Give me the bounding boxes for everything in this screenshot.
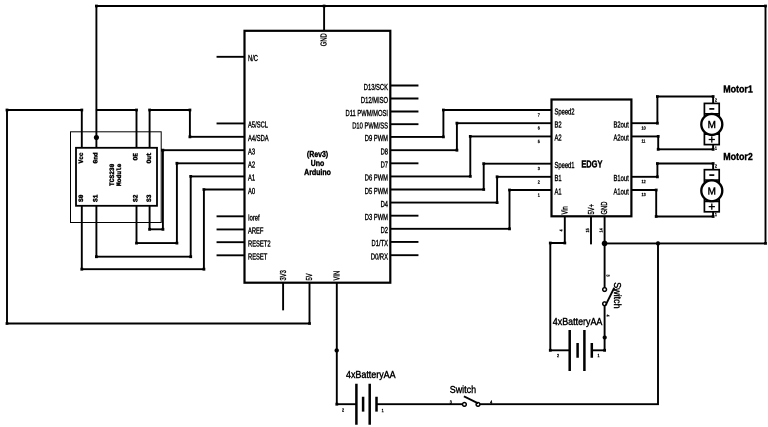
wire D0/RX stub xyxy=(390,254,417,256)
svg-text:D7: D7 xyxy=(381,161,388,170)
svg-text:5V+: 5V+ xyxy=(587,204,596,214)
svg-text:AREF: AREF xyxy=(248,227,264,236)
svg-text:D8: D8 xyxy=(381,148,388,157)
svg-text:13: 13 xyxy=(642,192,647,198)
svg-text:A1: A1 xyxy=(555,187,562,196)
svg-text:A2: A2 xyxy=(248,161,255,170)
wire S3 to A3 xyxy=(150,150,245,229)
wire switch1 to ground junction xyxy=(480,243,658,404)
wire D2 to A1 xyxy=(390,190,551,229)
Motor1 M1 minus mark xyxy=(709,108,714,110)
wire D9 to Speed2 xyxy=(390,110,551,137)
svg-text:VIN: VIN xyxy=(333,271,342,281)
svg-text:D2: D2 xyxy=(381,226,388,235)
svg-text:B1: B1 xyxy=(555,174,562,183)
wire D12/MISO stub xyxy=(390,98,417,100)
Motor2 M2 terminal dividers xyxy=(704,180,719,202)
switch S1 lever xyxy=(464,396,478,403)
svg-text:Motor2: Motor2 xyxy=(723,151,753,163)
wire EDGY Vin to battery2 xyxy=(550,216,568,350)
switch S1 contact circles xyxy=(463,403,467,407)
svg-text:D10 PWM/SS: D10 PWM/SS xyxy=(352,122,388,131)
svg-text:A1out: A1out xyxy=(614,187,629,196)
wire RESET2 stub xyxy=(218,241,245,243)
battery BT2 4xBatteryAA plates xyxy=(570,330,585,371)
wire A2out to Motor1 pin1 xyxy=(631,136,713,149)
svg-text:D1/TX: D1/TX xyxy=(372,239,389,248)
wire A1out to Motor2 pin1 xyxy=(631,190,713,217)
Motor2 M2 body xyxy=(704,170,719,212)
wire Out to A4/SDA xyxy=(150,110,245,148)
svg-text:A2out: A2out xyxy=(614,134,629,143)
svg-text:Vcc: Vcc xyxy=(78,152,85,163)
svg-text:N/C: N/C xyxy=(248,54,258,63)
TCS230 module U1 outer boundary xyxy=(71,132,162,223)
svg-text:D13/SCK: D13/SCK xyxy=(364,83,388,92)
svg-text:4xBatteryAA: 4xBatteryAA xyxy=(346,370,396,380)
svg-text:12: 12 xyxy=(642,178,647,184)
svg-text:S0: S0 xyxy=(78,194,85,202)
wire D13/SCK stub xyxy=(390,85,417,87)
wire D4 to B1 xyxy=(390,177,551,203)
wire GND top bus xyxy=(96,6,765,243)
svg-text:S3: S3 xyxy=(146,194,153,202)
svg-text:Out: Out xyxy=(146,152,153,163)
svg-text:D12/MISO: D12/MISO xyxy=(361,96,388,105)
svg-text:Speed2: Speed2 xyxy=(555,107,575,116)
wire D11 stub xyxy=(390,111,417,113)
wire RESET stub xyxy=(218,254,245,256)
svg-text:A1: A1 xyxy=(248,174,255,183)
EDGY motor driver U3 body xyxy=(552,100,632,217)
svg-text:Gnd: Gnd xyxy=(93,152,100,163)
svg-text:S2: S2 xyxy=(133,194,140,202)
junction dot bottom ground riser xyxy=(656,241,660,245)
wire gnd bus to TCS230 Gnd pin xyxy=(95,6,97,148)
svg-text:D9 PWM: D9 PWM xyxy=(365,134,388,143)
junction dot TCS230 Gnd xyxy=(94,135,99,140)
svg-text:B2out: B2out xyxy=(614,121,629,130)
svg-text:Switch: Switch xyxy=(612,282,622,308)
wire D8 to B2 xyxy=(390,123,551,150)
wire EDGY GND pin xyxy=(604,216,606,243)
wire battery1 to switch1 xyxy=(378,403,463,405)
wire TCS230 Vcc pin xyxy=(81,110,83,148)
Motor1 M1 plus mark xyxy=(709,136,715,142)
svg-text:Switch: Switch xyxy=(450,385,476,395)
svg-text:11: 11 xyxy=(642,138,646,144)
wire N/C stub xyxy=(218,56,245,58)
Motor1 M1 terminal dividers xyxy=(704,114,719,135)
battery BT1 4xBatteryAA plates xyxy=(356,384,369,425)
svg-text:3V3: 3V3 xyxy=(279,270,288,280)
svg-text:D3 PWM: D3 PWM xyxy=(365,213,388,222)
svg-text:Arduino: Arduino xyxy=(304,168,331,178)
svg-text:M: M xyxy=(708,120,716,131)
wire 5V rail left xyxy=(7,110,310,324)
svg-text:15: 15 xyxy=(584,228,590,233)
wire D6 to A2 xyxy=(390,136,551,176)
svg-text:M: M xyxy=(708,186,716,197)
svg-text:EDGY: EDGY xyxy=(581,159,602,170)
wire Ioref stub xyxy=(218,215,245,217)
svg-text:Speed1: Speed1 xyxy=(555,161,575,170)
svg-text:A5/SCL: A5/SCL xyxy=(248,121,268,130)
wire D1/TX stub xyxy=(390,241,417,243)
svg-text:B1out: B1out xyxy=(614,174,629,183)
svg-text:A3: A3 xyxy=(248,148,255,157)
svg-text:10: 10 xyxy=(642,125,647,131)
junction dot switch2 to battery2 xyxy=(603,335,607,339)
wire battery2 to switch2 xyxy=(593,306,604,350)
junction dot VIN wire xyxy=(335,348,339,352)
wire S0 to A0 xyxy=(82,190,245,270)
wire VIN to battery1 xyxy=(337,283,355,405)
wire D7 stub xyxy=(390,162,417,164)
wire S1 to A1 xyxy=(96,176,244,256)
svg-text:14: 14 xyxy=(598,228,604,233)
svg-text:S1: S1 xyxy=(93,194,100,202)
wire D3 stub xyxy=(390,215,417,217)
Motor1 M1 body xyxy=(704,103,719,144)
svg-text:A4/SDA: A4/SDA xyxy=(248,134,269,143)
svg-text:5V: 5V xyxy=(305,273,314,280)
svg-text:D5 PWM: D5 PWM xyxy=(365,187,388,196)
Motor2 M2 rotor circle xyxy=(701,180,722,201)
svg-text:D0/RX: D0/RX xyxy=(371,253,388,262)
wire gnd junction to right bus xyxy=(605,242,766,244)
wire AREF stub xyxy=(218,228,245,230)
svg-text:D6 PWM: D6 PWM xyxy=(365,174,388,183)
switch S2 contact circles xyxy=(603,288,607,292)
svg-text:Vin: Vin xyxy=(561,206,570,214)
svg-text:RESET2: RESET2 xyxy=(248,240,271,249)
svg-text:A2: A2 xyxy=(555,134,562,143)
svg-text:A0: A0 xyxy=(248,187,255,196)
svg-text:B2: B2 xyxy=(555,121,562,130)
svg-text:OE: OE xyxy=(133,153,140,161)
svg-text:Ioref: Ioref xyxy=(248,214,260,223)
wire Arduino GND pin to bus xyxy=(323,6,325,31)
svg-text:RESET: RESET xyxy=(248,253,268,262)
svg-text:GND: GND xyxy=(320,33,329,46)
wire OE to Gnd tie xyxy=(96,110,136,148)
wire D5 to Speed1 xyxy=(390,164,551,190)
switch S2 lever xyxy=(606,288,615,305)
Motor2 M2 plus mark xyxy=(709,204,715,210)
TCS230 module U1 body xyxy=(76,148,157,206)
Motor1 M1 rotor circle xyxy=(701,114,722,135)
wire switch2 to gnd junction xyxy=(604,243,606,287)
op-amp, er, Arduino U2 body xyxy=(245,31,391,283)
wire A5/SCL stub xyxy=(218,122,245,124)
svg-text:D11 PWM/MOSI: D11 PWM/MOSI xyxy=(346,109,388,118)
svg-text:GND: GND xyxy=(600,202,609,215)
svg-text:4xBatteryAA: 4xBatteryAA xyxy=(553,316,603,326)
wire D10 stub xyxy=(390,123,417,125)
svg-text:D4: D4 xyxy=(381,200,388,209)
wire B2out to Motor1 pin2 xyxy=(631,97,713,124)
junction dot EDGY GND node xyxy=(602,241,608,247)
wire S2 to A2 xyxy=(137,163,245,243)
svg-text:Motor1: Motor1 xyxy=(723,84,753,96)
Motor2 M2 minus mark xyxy=(709,174,714,176)
svg-text:Module: Module xyxy=(116,163,123,186)
wire 3V3 stub xyxy=(282,283,284,310)
wire B1out to Motor2 pin2 xyxy=(631,164,713,177)
wire EDGY 5V+ stub xyxy=(590,216,592,243)
